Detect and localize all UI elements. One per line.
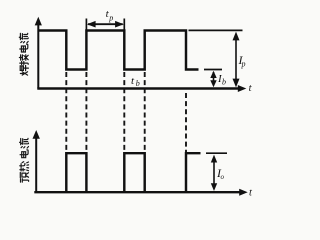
svg-text:b: b [222, 78, 226, 87]
svg-text:o: o [221, 173, 225, 181]
svg-text:b: b [136, 79, 140, 88]
svg-text:p: p [108, 14, 113, 23]
svg-text:p: p [241, 60, 246, 69]
